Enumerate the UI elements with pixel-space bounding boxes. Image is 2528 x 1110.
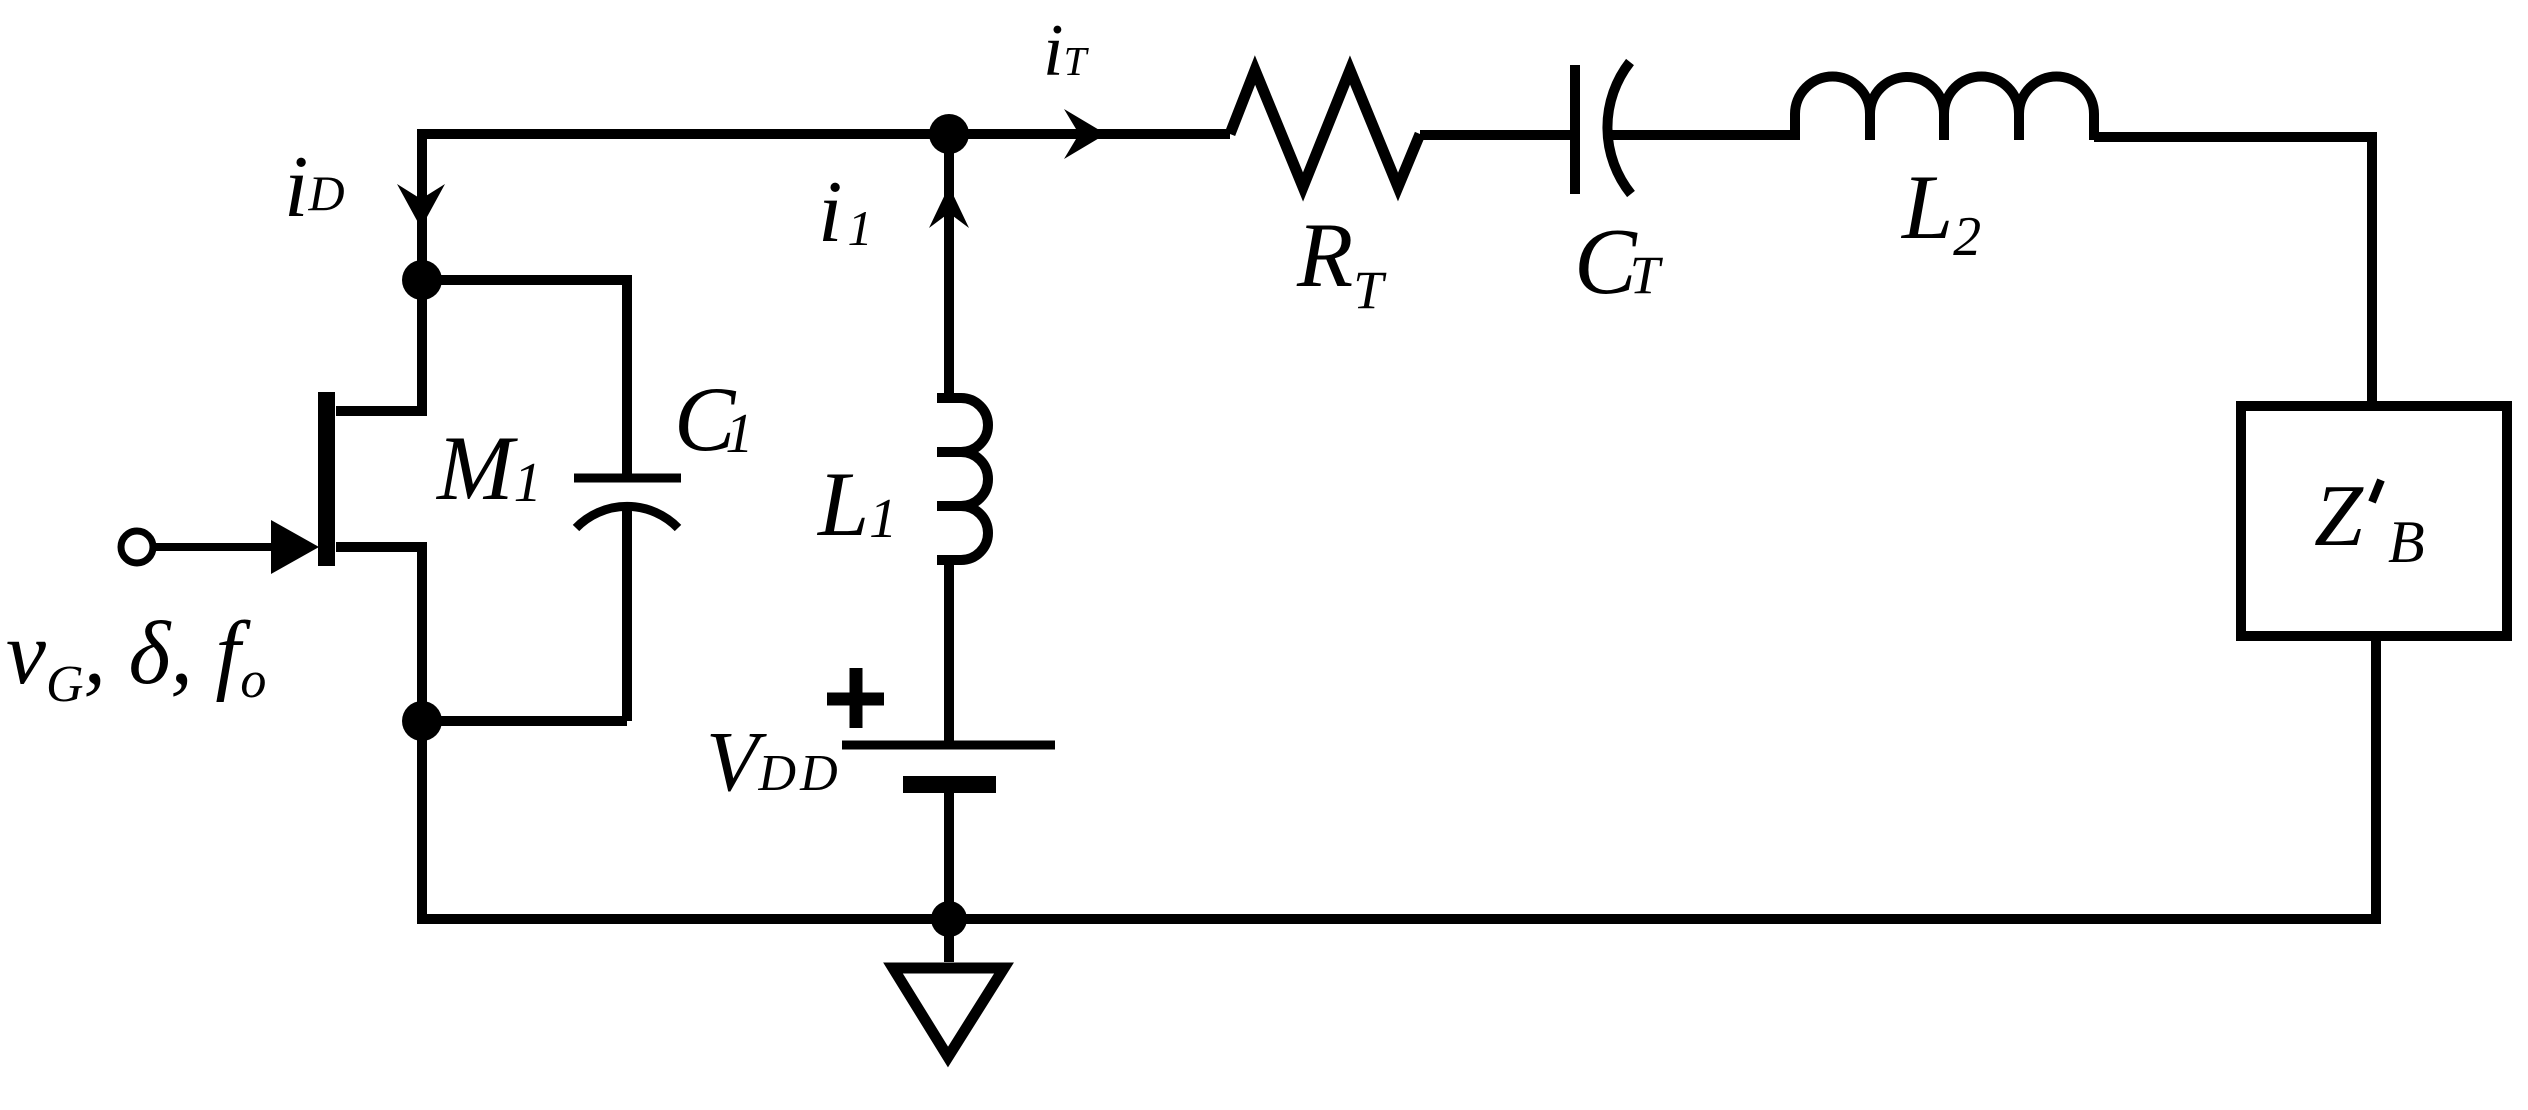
battery VDD short plate: [903, 776, 996, 793]
arrow iT: [1064, 109, 1106, 159]
wire L1 to battery: [944, 561, 954, 745]
capacitor C1 curved plate: [576, 506, 678, 528]
node source dot: [402, 701, 442, 741]
gate arrowhead: [271, 520, 319, 574]
svg-text:i1: i1: [818, 164, 872, 261]
arrow i1: [929, 186, 969, 228]
node bottom junction dot: [931, 901, 967, 937]
wire L2 to right corner: [2094, 137, 2372, 406]
box Z'B: [2241, 406, 2507, 636]
svg-text:iD: iD: [284, 139, 345, 236]
svg-text:B: B: [2388, 509, 2425, 575]
arrow iD: [397, 184, 445, 228]
wire left to bottom rail: [417, 721, 427, 919]
svg-text:VDD: VDD: [706, 713, 842, 809]
wire ground stub: [944, 919, 954, 962]
capacitor CT curved plate: [1607, 62, 1631, 194]
svg-text:L1: L1: [816, 453, 897, 555]
resistor RT: [1230, 70, 1420, 187]
node top junction dot: [929, 114, 969, 154]
wire top horizontal: [422, 129, 1230, 139]
svg-text:M1: M1: [435, 417, 542, 519]
label Z'B: [2314, 468, 2425, 575]
ground symbol: [893, 968, 1004, 1057]
capacitor C1 top plate: [574, 474, 681, 483]
wire source to C1 bottom: [422, 716, 627, 726]
inductor L2: [1795, 77, 2094, 141]
wire drain lead: [336, 280, 422, 411]
wire junction to L1: [944, 134, 954, 399]
wire RT to CT: [1420, 130, 1575, 140]
svg-text:iT: iT: [1043, 10, 1090, 92]
wire gate input: [153, 543, 272, 551]
transistor M1 channel bar: [318, 392, 335, 566]
node drain dot: [402, 260, 442, 300]
wire box to bottom rail: [2371, 641, 2381, 919]
inductor L1: [937, 398, 988, 560]
wire CT to L2: [1612, 130, 1795, 140]
wire left vertical drain: [417, 129, 427, 280]
wire source lead: [336, 547, 422, 721]
svg-text:C1: C1: [674, 368, 753, 470]
wire C1 bottom: [622, 510, 632, 721]
wire bottom rail: [417, 914, 2381, 924]
capacitor CT left plate: [1570, 65, 1580, 194]
plus sign: [827, 668, 884, 728]
svg-text:Z: Z: [2314, 468, 2364, 565]
input terminal circle: [121, 531, 153, 563]
svg-text:vG, δ, fo: vG, δ, fo: [6, 604, 266, 713]
battery VDD long plate: [842, 741, 1055, 750]
svg-text:CT: CT: [1574, 210, 1664, 314]
svg-text:RT: RT: [1296, 204, 1387, 320]
wire battery to bottom rail: [944, 793, 954, 919]
svg-text:L2: L2: [1900, 156, 1981, 268]
wire drain to C1 top: [422, 280, 627, 478]
